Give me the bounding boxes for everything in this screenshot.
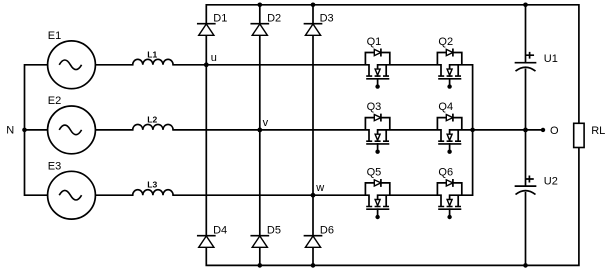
svg-text:O: O — [550, 125, 559, 137]
svg-text:D2: D2 — [267, 12, 281, 24]
svg-text:E3: E3 — [48, 160, 61, 172]
svg-text:U1: U1 — [544, 53, 558, 65]
svg-text:D3: D3 — [320, 12, 334, 24]
svg-text:L3: L3 — [147, 180, 157, 190]
svg-text:E2: E2 — [48, 95, 61, 107]
svg-text:w: w — [315, 182, 324, 194]
svg-text:N: N — [6, 124, 14, 136]
svg-text:u: u — [211, 52, 217, 64]
svg-text:Q3: Q3 — [367, 101, 382, 113]
svg-text:Q1: Q1 — [367, 36, 382, 48]
svg-text:D4: D4 — [213, 225, 227, 237]
svg-text:v: v — [263, 117, 269, 129]
svg-text:Q2: Q2 — [438, 36, 453, 48]
svg-text:D1: D1 — [213, 12, 227, 24]
svg-text:Q4: Q4 — [438, 101, 453, 113]
svg-text:E1: E1 — [48, 30, 61, 42]
svg-text:Q6: Q6 — [438, 166, 453, 178]
svg-text:Q5: Q5 — [367, 166, 382, 178]
svg-text:D6: D6 — [320, 225, 334, 237]
svg-text:L1: L1 — [147, 50, 157, 60]
svg-text:U2: U2 — [544, 176, 558, 188]
svg-text:D5: D5 — [267, 225, 281, 237]
svg-text:RL: RL — [591, 125, 605, 137]
svg-text:L2: L2 — [147, 115, 157, 125]
